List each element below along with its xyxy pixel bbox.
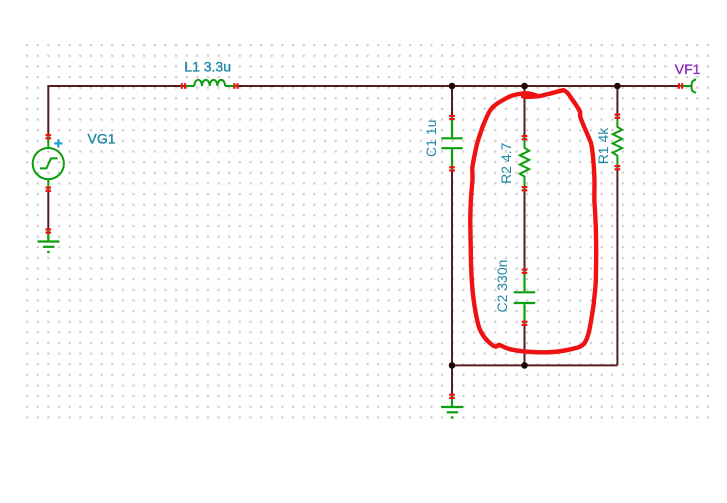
- output pin VF1: [680, 79, 697, 92]
- svg-text:VF1: VF1: [675, 61, 701, 77]
- VG1 plus sign: [54, 139, 62, 147]
- node: junction bottom C1/ground: [449, 362, 456, 369]
- L1 right pin marks: [233, 83, 238, 89]
- red freehand annotation circle around R2 and C2: [470, 90, 596, 352]
- VG1 bottom pin marks: [46, 187, 52, 192]
- C2 bottom pin marks: [522, 321, 528, 326]
- svg-text:R2 4.7: R2 4.7: [498, 142, 514, 183]
- L1 left pin marks: [181, 83, 186, 89]
- svg-text:C2 330n: C2 330n: [494, 260, 510, 313]
- grid dot field: [25, 43, 713, 420]
- C1 top pin marks: [449, 115, 455, 120]
- svg-text:L1 3.3u: L1 3.3u: [184, 58, 231, 74]
- node: junction bottom C2: [521, 362, 528, 369]
- bottom ground pin marks: [449, 394, 455, 399]
- wire: L1 right pin to VF1 pin: [234, 85, 681, 87]
- wire: R2/C2 branch: [524, 86, 526, 140]
- R2 bottom pin marks: [522, 186, 528, 191]
- C1 bottom pin marks: [449, 166, 455, 171]
- wire: bottom ground stub: [451, 365, 453, 398]
- R1 bottom pin marks: [615, 165, 621, 170]
- R1 top pin marks: [615, 114, 621, 119]
- svg-text:C1 1u: C1 1u: [423, 120, 439, 157]
- resistor R2: [520, 137, 529, 191]
- svg-text:VG1: VG1: [88, 131, 116, 147]
- capacitor C2: [514, 270, 535, 325]
- node: junction top C1: [449, 83, 456, 90]
- voltage source VG1: [33, 136, 64, 191]
- wire: top net from VG1 corner to L1 left pin: [48, 86, 186, 139]
- node: junction top R2: [521, 83, 528, 90]
- ground pin marks (VG1 ground): [46, 228, 52, 233]
- capacitor C1: [441, 117, 462, 171]
- node: junction top R1: [614, 83, 621, 90]
- VF1 pin marks: [678, 83, 683, 89]
- resistor R1: [613, 115, 622, 170]
- wire: bottom net: [452, 364, 617, 366]
- VG1 top pin marks: [46, 134, 52, 139]
- ground (below VG1): [38, 231, 60, 253]
- red annotation stroke overlap tail (top): [523, 94, 537, 99]
- svg-text:R1 4k: R1 4k: [595, 127, 611, 165]
- wire: C1 branch: [451, 86, 453, 119]
- R2 top pin marks: [522, 135, 528, 140]
- ground (bottom, below C1 branch): [441, 395, 463, 418]
- wire: VG1 bottom to ground pin: [47, 187, 49, 234]
- C2 top pin marks: [522, 269, 528, 274]
- inductor L1: [184, 80, 238, 86]
- wire: R1 branch: [616, 86, 618, 118]
